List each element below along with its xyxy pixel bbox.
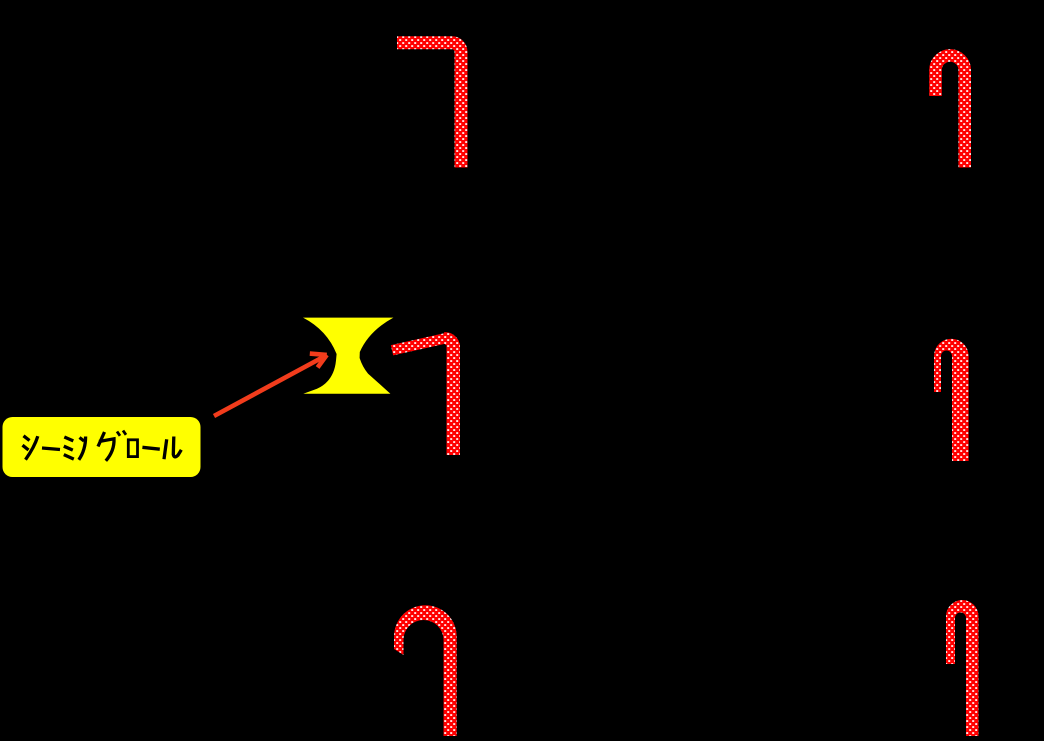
arrow to roll [214,354,327,416]
ku [98,432,105,447]
hook stage3 bottom-center (cane curl) [394,605,457,740]
label box [3,417,201,477]
dakuten [117,432,120,436]
ru [164,439,167,459]
hook stage3 bottom-right (closed seam curl) [946,600,979,740]
hook stage1 top-right (curled end) [935,55,964,167]
n [80,438,85,442]
label text (katakana drawn as paths) [23,431,182,461]
mi [64,437,73,441]
hook stage1 top-center (flat flange) [397,43,461,168]
hook stage2 mid-right (tighter curl) [934,339,969,461]
long bar 2 [142,447,159,449]
hook stage2 mid-center (bent flange) [392,338,454,455]
long bar 1 [42,448,60,450]
ro [128,440,137,457]
shi [24,436,30,441]
seaming roll profile (yellow bowtie) [303,318,393,394]
